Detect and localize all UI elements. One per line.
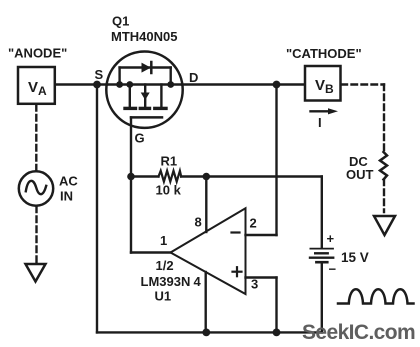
rectified waveform [338,289,414,303]
svg-text:2: 2 [250,216,257,231]
body diode triangle [142,63,151,73]
gate wire down [130,117,132,176]
battery plate short bottom [316,261,327,264]
wire battery top [321,177,323,249]
wire S down to bottom rail [96,85,98,333]
battery plate short [315,252,328,254]
wire VA to S [56,83,107,85]
resistor R1 [131,175,159,177]
dashed wire VA to AC source [35,105,37,172]
pin 2 stub [246,234,277,236]
svg-text:AC: AC [59,174,78,189]
svg-text:IN: IN [60,189,73,204]
svg-text:OUT: OUT [346,167,374,182]
pin 4 wire [204,272,206,332]
pin 3 wire down [275,278,277,333]
pin 3 stub [246,276,277,278]
wire battery bottom [321,262,323,332]
transistor Q1 body circle [106,51,182,127]
ground arrow left [26,264,46,282]
gate electrode bar [131,116,162,119]
svg-text:3: 3 [251,277,258,292]
load resistor squiggle [380,152,387,180]
node cathode dot [273,81,281,89]
svg-text:8: 8 [195,215,202,230]
svg-text:Q1: Q1 [112,14,129,29]
node dot diode right [167,81,174,88]
svg-text:15 V: 15 V [341,250,369,265]
svg-text:+: + [327,231,335,246]
svg-text:D: D [189,70,198,85]
node dot diode left [116,81,123,88]
channel bar left [125,107,136,110]
channel bar middle [140,107,149,110]
svg-text:1/2: 1/2 [156,258,174,273]
body arrow head [141,93,150,101]
node S dot [93,81,101,89]
AC source circle [19,171,53,205]
body diode left riser [118,68,120,85]
node dot source contact [126,81,133,88]
dashed wire below load [383,180,385,213]
current arrow I [311,110,331,112]
wire R1 to battery plus [206,175,321,177]
svg-text:−: − [329,262,337,277]
body diode top wire [120,66,171,68]
svg-text:S: S [95,67,104,82]
svg-text:1: 1 [160,233,167,248]
node pin4 ground dot [202,329,210,337]
svg-text:G: G [135,131,145,146]
svg-text:10 k: 10 k [156,183,182,198]
battery plate long [310,257,333,259]
svg-text:"ANODE": "ANODE" [8,46,67,61]
dashed wire VB to load [342,83,385,85]
pin 2 wire up to cathode [275,85,277,236]
output wire to op-amp [131,251,171,253]
pin 8 supply wire [205,177,207,233]
wire D to VB [182,83,304,85]
voltage source box VA [18,67,55,104]
drain contact drop [160,85,162,108]
svg-text:U1: U1 [155,289,172,304]
node R1 right dot [203,173,211,181]
op-amp U1 triangle [171,208,246,294]
body arrow drop [144,85,146,107]
battery plate long top [310,248,333,250]
svg-text:MTH40N05: MTH40N05 [111,29,177,44]
dashed wire AC source down [35,207,37,263]
svg-text:SeekIC.com: SeekIC.com [302,321,415,344]
wire S-D through MOSFET [107,83,182,85]
voltage source box VB [305,66,341,101]
bottom rail [97,331,322,333]
channel bar right [155,107,166,110]
svg-text:"CATHODE": "CATHODE" [286,46,362,61]
svg-text:I: I [318,115,322,130]
source contact drop [129,85,131,108]
op-amp plus sign [233,271,242,273]
node pin3 ground dot [273,329,281,337]
output wire down from gate node [130,177,132,253]
AC sine symbol [26,181,46,194]
body diode right riser [169,68,171,85]
ground arrow right [374,216,395,235]
svg-text:4: 4 [194,274,202,289]
op-amp minus sign [232,231,240,233]
body diode cathode bar [150,62,153,73]
svg-text:R1: R1 [161,154,178,169]
svg-text:LM393N: LM393N [141,274,191,289]
dashed wire load down [383,85,385,153]
node R1 left dot [127,173,135,181]
